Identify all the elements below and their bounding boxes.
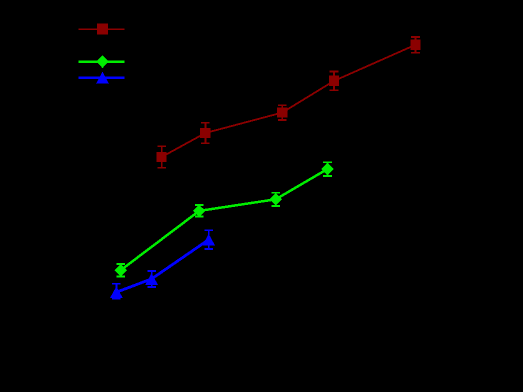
red series square markers (156, 40, 420, 163)
green series line (121, 169, 328, 270)
blue series triangle markers (110, 234, 215, 298)
blue series line (116, 240, 208, 293)
green series error bars (116, 162, 332, 276)
red series error bars (157, 37, 420, 168)
legend entry green series (78, 55, 124, 68)
red series line (162, 45, 416, 157)
legend entry red series (78, 24, 124, 35)
legend entry blue series (78, 72, 124, 84)
green series diamond markers (114, 163, 333, 276)
blue series error bars (112, 230, 213, 298)
